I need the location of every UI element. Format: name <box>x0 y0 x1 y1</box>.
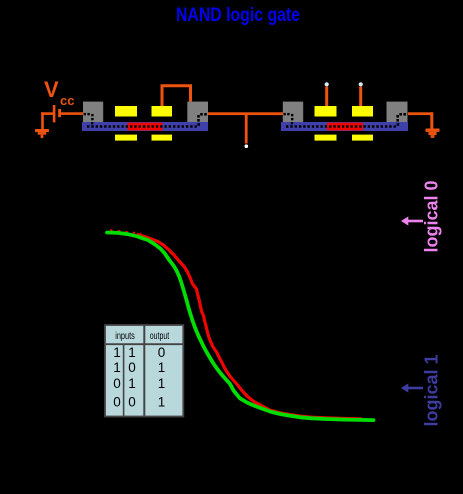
svg-text:1: 1 <box>158 360 166 375</box>
svg-text:output: output <box>150 331 170 342</box>
svg-text:0: 0 <box>158 345 166 360</box>
svg-text:1: 1 <box>158 395 166 410</box>
svg-text:1: 1 <box>113 360 121 375</box>
svg-text:NAND logic gate: NAND logic gate <box>176 5 300 26</box>
svg-text:0: 0 <box>128 395 136 410</box>
svg-text:logical 1: logical 1 <box>422 354 442 426</box>
svg-text:V: V <box>44 77 59 102</box>
svg-text:cc: cc <box>60 93 74 108</box>
svg-text:0: 0 <box>128 360 136 375</box>
svg-text:logical 0: logical 0 <box>422 180 442 252</box>
svg-text:0: 0 <box>113 395 121 410</box>
svg-text:1: 1 <box>128 376 136 391</box>
svg-text:inputs: inputs <box>115 331 135 342</box>
svg-text:1: 1 <box>128 345 136 360</box>
svg-text:1: 1 <box>158 376 166 391</box>
svg-text:1: 1 <box>113 345 121 360</box>
svg-text:0: 0 <box>113 376 121 391</box>
